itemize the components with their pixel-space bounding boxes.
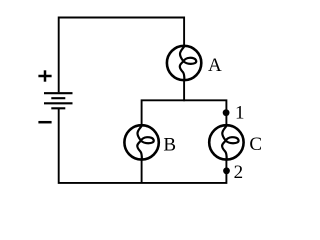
battery plate long <box>44 102 73 104</box>
battery plate short bottom <box>51 107 65 109</box>
battery plate short <box>51 97 65 99</box>
svg-text:1: 1 <box>235 102 245 123</box>
wire middle rail <box>142 100 227 126</box>
label minus terminal <box>38 121 51 124</box>
node 2 junction dot <box>223 167 230 174</box>
lamp A <box>167 46 201 80</box>
lamp C <box>209 125 243 159</box>
wire lamp A to middle rail <box>183 80 185 101</box>
wire lamp B to bottom rail <box>141 160 143 183</box>
wire bottom loop: battery negative along bottom rail up to lamp C <box>59 108 227 183</box>
wire top loop: battery positive to lamp A <box>59 18 184 93</box>
battery B1 <box>44 93 73 108</box>
label plus terminal <box>38 70 51 81</box>
svg-text:2: 2 <box>234 162 244 183</box>
svg-text:B: B <box>163 135 176 156</box>
svg-text:C: C <box>249 134 262 155</box>
battery plate long top <box>44 92 73 94</box>
node 1 junction dot <box>223 109 230 116</box>
svg-text:A: A <box>208 55 222 76</box>
lamp B <box>124 125 158 159</box>
